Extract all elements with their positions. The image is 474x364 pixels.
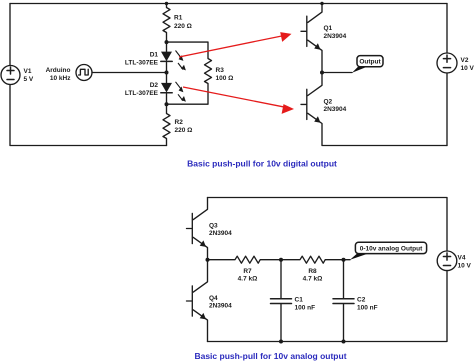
svg-text:Basic push-pull for 10v analog: Basic push-pull for 10v analog output bbox=[194, 351, 346, 361]
svg-text:V4: V4 bbox=[458, 254, 466, 261]
svg-text:220 Ω: 220 Ω bbox=[175, 127, 193, 134]
svg-text:LTL-307EE: LTL-307EE bbox=[125, 59, 159, 66]
svg-text:Arduino: Arduino bbox=[46, 67, 71, 74]
svg-text:Q1: Q1 bbox=[324, 25, 333, 32]
svg-text:10 V: 10 V bbox=[461, 65, 474, 72]
svg-text:220 Ω: 220 Ω bbox=[174, 23, 192, 30]
svg-text:Q2: Q2 bbox=[324, 98, 333, 105]
svg-text:10 V: 10 V bbox=[458, 262, 472, 269]
svg-text:R1: R1 bbox=[174, 14, 183, 21]
svg-text:2N3904: 2N3904 bbox=[209, 230, 232, 237]
svg-text:2N3904: 2N3904 bbox=[209, 303, 232, 310]
svg-text:R2: R2 bbox=[175, 119, 184, 126]
svg-text:4.7 kΩ: 4.7 kΩ bbox=[238, 275, 258, 282]
svg-text:R7: R7 bbox=[243, 268, 252, 275]
svg-text:10 kHz: 10 kHz bbox=[50, 75, 71, 82]
svg-text:5 V: 5 V bbox=[24, 76, 34, 83]
svg-text:100 Ω: 100 Ω bbox=[216, 75, 234, 82]
svg-text:LTL-307EE: LTL-307EE bbox=[125, 90, 159, 97]
svg-text:Output: Output bbox=[359, 59, 381, 66]
svg-text:D1: D1 bbox=[150, 51, 159, 58]
svg-text:C1: C1 bbox=[295, 296, 304, 303]
svg-text:Basic push-pull for 10v digita: Basic push-pull for 10v digital output bbox=[187, 159, 337, 169]
svg-text:0-10v analog Output: 0-10v analog Output bbox=[360, 245, 423, 252]
svg-text:V2: V2 bbox=[461, 57, 469, 64]
svg-text:R3: R3 bbox=[216, 67, 225, 74]
svg-text:D2: D2 bbox=[150, 82, 159, 89]
svg-text:2N3904: 2N3904 bbox=[324, 106, 347, 113]
svg-text:C2: C2 bbox=[357, 296, 366, 303]
svg-text:Q3: Q3 bbox=[209, 222, 218, 229]
svg-text:V1: V1 bbox=[24, 68, 32, 75]
svg-text:100 nF: 100 nF bbox=[295, 304, 316, 311]
svg-text:R8: R8 bbox=[308, 268, 317, 275]
svg-text:4.7 kΩ: 4.7 kΩ bbox=[303, 275, 323, 282]
svg-text:100 nF: 100 nF bbox=[357, 304, 378, 311]
svg-text:2N3904: 2N3904 bbox=[324, 33, 347, 40]
svg-text:Q4: Q4 bbox=[209, 295, 218, 302]
